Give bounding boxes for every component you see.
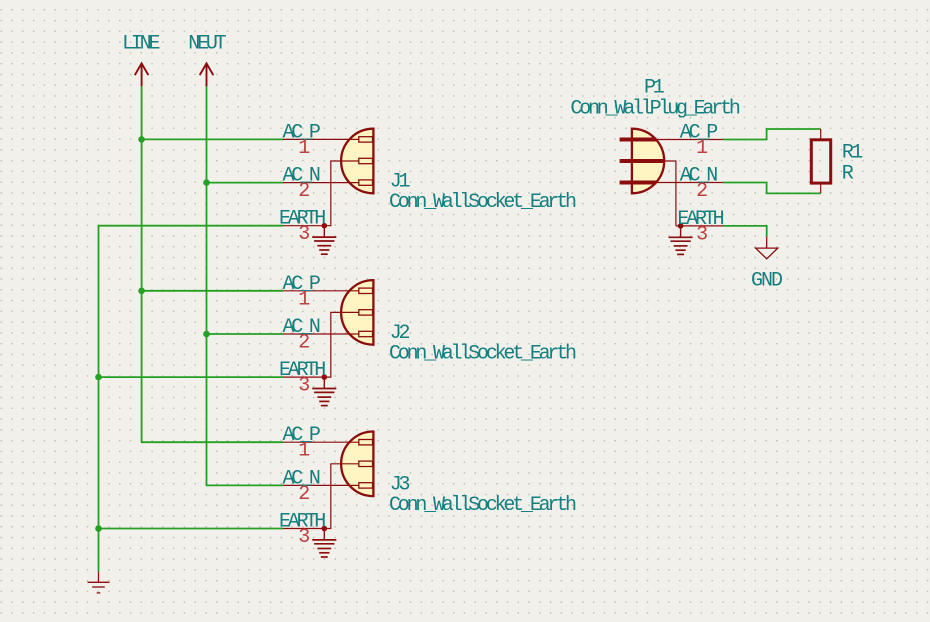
svg-text:LINE: LINE: [122, 32, 159, 55]
svg-text:R1: R1: [842, 141, 863, 164]
svg-text:J2: J2: [390, 322, 410, 345]
svg-text:J3: J3: [390, 473, 410, 496]
svg-text:GND: GND: [751, 269, 782, 292]
svg-text:Conn_WallPlug_Earth: Conn_WallPlug_Earth: [570, 98, 739, 121]
svg-text:Conn_WallSocket_Earth: Conn_WallSocket_Earth: [389, 191, 576, 214]
svg-text:NEUT: NEUT: [188, 32, 226, 55]
svg-text:Conn_WallSocket_Earth: Conn_WallSocket_Earth: [389, 342, 576, 365]
svg-text:Conn_WallSocket_Earth: Conn_WallSocket_Earth: [389, 494, 576, 517]
